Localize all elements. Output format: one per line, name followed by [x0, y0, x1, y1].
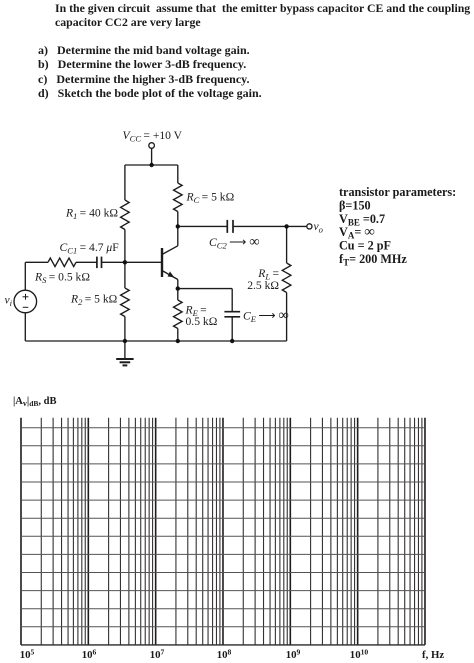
svg-text:R1 = 40 kΩ: R1 = 40 kΩ: [65, 207, 118, 222]
wire top rail to RC: [177, 165, 179, 183]
list item a: [38, 43, 250, 58]
svg-text:106: 106: [82, 647, 97, 661]
node R2 bottom rail junction: [123, 339, 127, 343]
wire R1 to base node: [124, 230, 126, 263]
svg-text:109: 109: [286, 647, 301, 661]
wire RC to collector node: [177, 212, 179, 227]
transistor Q1 emitter arrowhead: [168, 271, 175, 277]
svg-text:0.5 kΩ: 0.5 kΩ: [186, 315, 218, 328]
wire CC1 to transistor base: [102, 261, 163, 263]
node CE bottom rail junction: [230, 339, 234, 343]
transistor Q1 collector stroke: [162, 246, 178, 255]
resistor RS: [48, 258, 76, 267]
emitter node wire to CE branch: [178, 288, 232, 290]
vi source plus sign: [23, 294, 29, 300]
list item d: [38, 86, 262, 101]
node emitter junction: [176, 286, 180, 290]
svg-text:108: 108: [217, 647, 232, 661]
wire RL to bottom rail: [286, 293, 288, 342]
list item c: [38, 72, 250, 87]
capacitor CC1 plates: [97, 257, 102, 269]
wire vi bottom to rail: [24, 313, 26, 341]
problem statement text: [55, 1, 474, 30]
svg-text:vi: vi: [5, 294, 13, 309]
Vcc terminal stem wire: [151, 148, 153, 165]
svg-text:Cu = 2 pF: Cu = 2 pF: [339, 239, 391, 253]
transistor Q1 base bar: [161, 248, 163, 277]
resistor RE: [174, 300, 183, 329]
top rail wire: [125, 164, 178, 166]
ground symbol bars: [116, 359, 133, 365]
svg-text:RS = 0.5 kΩ: RS = 0.5 kΩ: [34, 271, 90, 286]
wire color group: [14, 148, 312, 365]
wire top rail to R1: [124, 165, 126, 200]
svg-text:VCC = +10 V: VCC = +10 V: [123, 129, 183, 144]
wire CE to bottom rail: [231, 317, 233, 341]
svg-text:f, Hz: f, Hz: [422, 649, 444, 661]
wire collector node down to transistor collector: [177, 226, 179, 245]
wire vi to RS: [24, 262, 26, 290]
capacitor CC2 plates: [227, 220, 233, 233]
wire RS to capacitor CC1: [76, 261, 97, 263]
svg-text:2.5 kΩ: 2.5 kΩ: [247, 279, 279, 292]
resistor RL: [282, 263, 291, 293]
output wire collector node to capacitor CC2: [178, 225, 228, 227]
ground stem: [124, 341, 126, 359]
resistor R1: [121, 200, 130, 230]
transistor Q1 emitter stroke: [162, 271, 178, 280]
vo terminal open circle: [307, 224, 312, 229]
wire RE to bottom rail: [177, 329, 179, 342]
svg-text:R2 = 5 kΩ: R2 = 5 kΩ: [70, 293, 118, 308]
svg-text:fT= 200 MHz: fT= 200 MHz: [339, 252, 407, 268]
capacitor CE plates: [224, 312, 240, 317]
wire R2 to bottom rail: [124, 317, 126, 342]
node Vcc rail junction: [149, 163, 153, 167]
node collector/output junction: [176, 224, 180, 228]
svg-text:1010: 1010: [350, 647, 369, 661]
svg-text:CE ⟶ ∞: CE ⟶ ∞: [243, 308, 289, 325]
svg-text:β=150: β=150: [339, 198, 371, 212]
svg-text:RC = 5 kΩ: RC = 5 kΩ: [186, 191, 235, 206]
output wire CC2 to vo terminal: [233, 225, 307, 227]
vi source minus sign: [23, 306, 29, 308]
wire base node to R2: [124, 262, 126, 288]
svg-text:CC2 ⟶ ∞: CC2 ⟶ ∞: [209, 234, 260, 251]
source vi circle: [14, 290, 37, 313]
resistor RC: [174, 183, 183, 212]
svg-text:vo: vo: [314, 220, 324, 235]
svg-text:|Av|dB, dB: |Av|dB, dB: [13, 396, 57, 408]
wire RL node down to RL: [286, 226, 288, 263]
Vcc terminal circle: [149, 143, 155, 149]
bottom rail wire: [25, 340, 286, 342]
bode plot grid: vertical log lines: [21, 418, 425, 645]
svg-text:CC1 = 4.7 μF: CC1 = 4.7 μF: [60, 241, 120, 256]
svg-text:105: 105: [20, 647, 35, 661]
node RE bottom rail junction: [176, 339, 180, 343]
node RL/output junction: [284, 224, 288, 228]
node base junction: [123, 260, 127, 264]
list item b: [38, 57, 246, 72]
resistor R2: [121, 288, 130, 317]
svg-text:transistor parameters:: transistor parameters:: [339, 185, 456, 199]
bode plot grid: horizontal lines: [21, 428, 425, 645]
wire CE top: [231, 289, 233, 312]
svg-text:107: 107: [150, 647, 165, 661]
wire emitter to emitter node: [177, 280, 179, 289]
wire emitter node to RE: [177, 289, 179, 300]
